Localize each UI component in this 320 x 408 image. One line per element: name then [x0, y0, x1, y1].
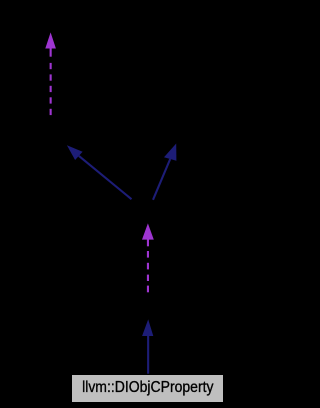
svg-text:llvm::DIObjCProperty: llvm::DIObjCProperty [82, 378, 214, 396]
